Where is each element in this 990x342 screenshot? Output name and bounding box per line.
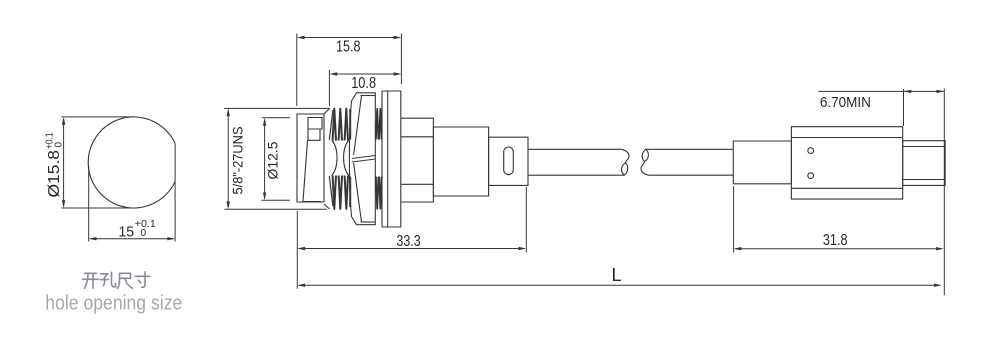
dim 15 dimension line [91, 238, 173, 240]
svg-text:6.70MIN: 6.70MIN [820, 94, 871, 111]
dim L arrow left [297, 284, 305, 287]
svg-text:15.8: 15.8 [336, 39, 361, 56]
dim 5/8-27UNS dimension line [227, 111, 229, 208]
dim 15 arrow right [167, 237, 175, 240]
dim 33.3 dimension line [300, 248, 525, 250]
dim 5/8-27UNS arrow up [227, 108, 230, 116]
barrel waist left curve [332, 140, 337, 176]
dim Ø12.5 arrow up [263, 118, 266, 126]
right shared extension line [943, 89, 945, 296]
char 尺 [118, 273, 133, 288]
plug key block [308, 118, 322, 130]
dim 5/8-27UNS arrow down [227, 201, 230, 209]
dim 15 extension left [88, 166, 90, 242]
cable left segment bottom [528, 174, 625, 176]
usb body inner top line [791, 137, 902, 139]
dim 6.70MIN dimension line [904, 90, 945, 92]
dim 15.8 dimension line [299, 37, 399, 39]
dim 33.3 arrow right [519, 247, 527, 250]
thread band top front (zigzag crests) [333, 109, 351, 141]
svg-text:15: 15 [119, 224, 135, 241]
lock washer threads bottom (zigzag) [376, 177, 382, 209]
nut hex edge lower slant [354, 163, 362, 222]
dim 10.8 arrow right [394, 72, 402, 75]
svg-text:Ø12.5: Ø12.5 [266, 142, 281, 180]
dim 31.8 arrow right [936, 247, 944, 250]
dim 15.8 extension right [400, 34, 402, 85]
cable break right leaf loop [642, 149, 648, 161]
plug key step [308, 129, 320, 140]
svg-text:L: L [612, 265, 622, 285]
dim 15 arrow left [89, 237, 97, 240]
cable break left leaf loop [622, 163, 628, 175]
usb body inner bottom line [791, 187, 902, 189]
dim 31.8 left extension [733, 186, 735, 253]
thread band bottom front (zigzag crests) [333, 176, 351, 209]
plug bottom inner line [303, 201, 322, 203]
dim Ø12.5 dimension line [264, 120, 266, 198]
nut hex edge upper slant [354, 96, 362, 156]
usb tip inner lines [903, 147, 945, 180]
dim Ø12.5 extension bottom [261, 199, 290, 201]
dim L dimension line [300, 284, 940, 286]
nut top chamfer line [361, 95, 376, 97]
coupling nut outline [349, 93, 375, 225]
lock washer threads top (zigzag) [376, 109, 382, 140]
usb body hole 2 [808, 173, 814, 179]
dim Ø12.5 arrow down [263, 193, 266, 201]
usb boot [733, 141, 791, 184]
svg-text:hole opening size: hole opening size [45, 293, 182, 315]
cap slot [504, 147, 514, 175]
plug bottom chamfer [324, 204, 330, 209]
dim 10.8 dimension line [332, 73, 400, 75]
dim L arrow right [934, 284, 942, 287]
char 孔 [100, 272, 116, 287]
char 开 [83, 273, 99, 288]
dim 15 extension right / flat edge [174, 143, 176, 241]
cable left segment top [528, 148, 622, 150]
svg-text:31.8: 31.8 [823, 232, 848, 249]
svg-text:0: 0 [141, 228, 147, 239]
plug taper line [303, 140, 308, 201]
dim Ø15.8 dimension line [63, 119, 65, 206]
dim 6.70MIN left extension [903, 89, 905, 126]
svg-text:5/8"-27UNS: 5/8"-27UNS [231, 127, 246, 195]
dim 15.8 extension left [296, 34, 298, 107]
chinese caption 开孔尺寸 (drawn strokes) [83, 272, 151, 289]
dim 33.3 arrow left [297, 247, 305, 250]
nut bottom chamfer line [361, 221, 376, 223]
dim Ø15.8 extension top [62, 116, 135, 118]
dim 5/8-27UNS extension bottom [225, 208, 328, 210]
dim 10.8 extension left [328, 70, 330, 106]
dim 33.3 right extension [525, 187, 527, 253]
char 寸 [135, 272, 150, 288]
rear body B [433, 127, 488, 196]
usb body hole 1 [808, 148, 814, 154]
svg-text:33.3: 33.3 [396, 233, 420, 250]
dim 6.70MIN leader line [818, 90, 903, 92]
dim 15.8 arrow right [394, 36, 402, 39]
dim Ø15.8 extension bottom [62, 207, 135, 209]
dim 6.70MIN arrow right [937, 90, 945, 93]
nut hex mid lines [352, 156, 376, 163]
dim Ø15.8 arrow up [62, 117, 65, 125]
cable end cap C [489, 137, 528, 185]
dim 33.3 left extension (shared with L) [296, 211, 298, 289]
plug front body [297, 114, 324, 202]
flange plate [382, 91, 401, 227]
dim 6.70MIN arrow left [904, 90, 912, 93]
svg-text:10.8: 10.8 [351, 75, 376, 92]
dim Ø12.5 extension top [262, 117, 290, 119]
dim 5/8-27UNS extension top [224, 107, 330, 109]
cable break right S-curve [641, 161, 649, 175]
dim 10.8 arrow left [329, 72, 337, 75]
dim 31.8 dimension line [736, 248, 942, 250]
cable break left S-curve [622, 149, 630, 163]
svg-text:Ø15.8: Ø15.8 [46, 150, 63, 198]
barrel waist right curve [344, 140, 349, 176]
dim 31.8 arrow left [734, 247, 742, 250]
cable right segment bottom [649, 174, 734, 176]
flange inner face line [387, 91, 389, 227]
usb body [791, 127, 902, 199]
rear section A inner lines [401, 137, 434, 185]
dim 15.8 arrow left [297, 36, 305, 39]
plug top chamfer [324, 109, 330, 115]
svg-text:0: 0 [54, 142, 65, 148]
rear section A [401, 118, 434, 202]
dim Ø15.8 arrow down [62, 200, 65, 208]
hole outline (circle with flat) [88, 117, 175, 208]
usb metal tip [903, 141, 945, 186]
cable right segment top [646, 148, 734, 150]
